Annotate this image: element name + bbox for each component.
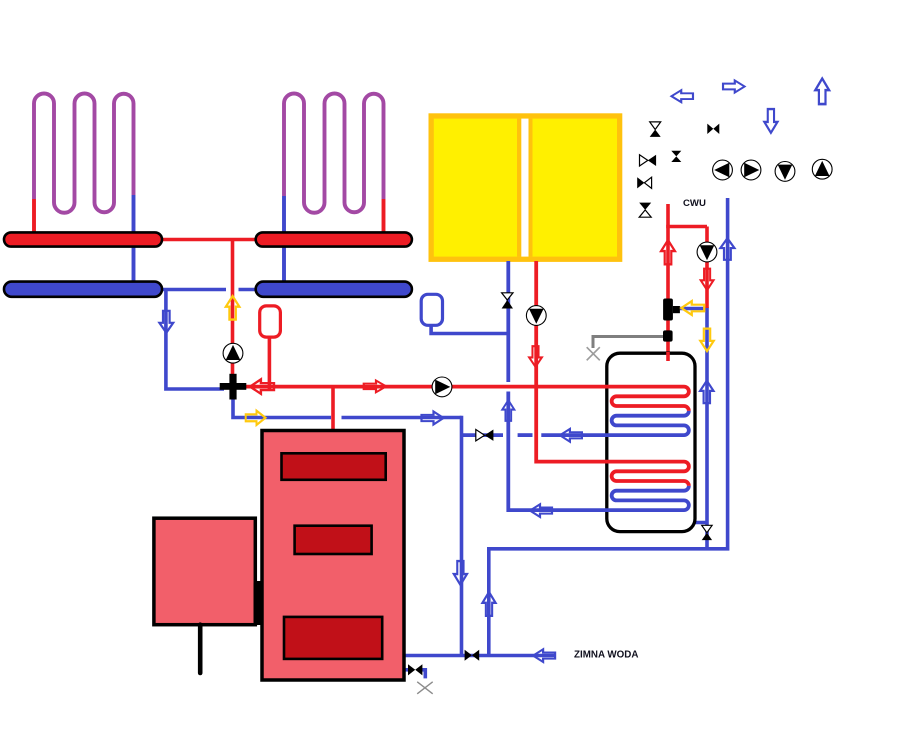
manifold blue left: [4, 282, 162, 297]
legend pump left: [713, 160, 733, 180]
tank top coil red part (boiler circuit supply): [243, 387, 689, 411]
DHW tank: [607, 353, 695, 531]
arrow blue down (legend): [764, 109, 777, 133]
gray X mark at boiler drain: [417, 682, 433, 694]
manifold red left: [4, 232, 162, 246]
heating coil 1 red leg: [32, 199, 36, 240]
valve legend hourglass black/white: [639, 203, 651, 218]
pump P2 boiler circuit (right): [432, 377, 452, 397]
arrow yellow left at tee: [681, 301, 704, 315]
pump P3 solar circuit (down): [526, 306, 546, 326]
wire: blue stub from tee to solar return: [680, 307, 707, 311]
arrow red down on solar supply: [529, 346, 542, 367]
black square fitting on CWU pipe: [663, 330, 673, 341]
arrow red down at x707: [701, 269, 714, 290]
wire: red CWU pipe into tank: [666, 204, 670, 361]
wire: blue tank bottom stub: [686, 521, 707, 525]
arrow blue left on tank bottom coil return: [530, 504, 552, 517]
tank bottom coil blue part (solar return): [508, 392, 689, 511]
hopper-boiler connector: [254, 581, 264, 625]
legend pump down: [775, 162, 795, 182]
wire: blue cold water horizontal ZIMNA WODA: [404, 654, 556, 658]
boiler window top: [282, 453, 386, 480]
arrow blue up at x707 tank: [700, 381, 713, 403]
arrow blue right (legend): [723, 80, 745, 92]
valve legend bowtie black: [707, 124, 719, 134]
solar panel: [429, 113, 623, 262]
wire: red drop from manifold link to pump and cross: [231, 240, 235, 379]
pump P4 CWU circulation (down): [697, 242, 717, 262]
arrow yellow right on boiler return: [246, 411, 266, 425]
svg-text:CWU: CWU: [683, 198, 706, 209]
heating coil 1 (purple serpentine): [34, 94, 134, 213]
wire: red vessel stem: [268, 335, 272, 389]
wire: blue expansion vessel stem: [431, 322, 508, 334]
valve legend small hourglass black: [671, 151, 681, 162]
wire: blue cross-to-riser after gap: [342, 416, 462, 420]
tank bottom coil red part (solar supply): [536, 261, 689, 486]
arrow red right on main: [364, 381, 386, 393]
arrow blue up on cold feed riser: [482, 592, 495, 616]
wire: blue boiler drain hook: [422, 670, 426, 679]
valve hourglass below solar panel: [502, 293, 513, 309]
arrow blue left on ZIMNA WODA line: [533, 649, 555, 662]
valve legend bowtie black/white: [637, 177, 651, 188]
black tee fitting on CWU pipe: [663, 299, 680, 321]
wire: red solar CWU drop at x=707: [705, 227, 709, 309]
manifold blue right: [256, 282, 412, 297]
wire: red CWU horizontal: [666, 225, 707, 229]
wire: solar return riser upper part: [506, 261, 510, 382]
valve hourglass below tank stub: [702, 525, 712, 540]
valve bowtie on boiler drain: [408, 664, 422, 675]
boiler body: [262, 431, 404, 681]
wire: blue riser down to cold water line: [460, 416, 464, 656]
arrow blue up at x727: [720, 238, 734, 260]
boiler window middle: [295, 526, 372, 554]
boiler window bottom: [284, 617, 382, 659]
heating coil 1 blue leg: [132, 195, 136, 290]
pump P1 radiator circuit (up): [223, 343, 243, 363]
wire: gray sensor line: [593, 337, 663, 349]
heating coil 2 blue leg: [282, 196, 286, 290]
wire: blue from cross down then right to riser: [233, 395, 331, 418]
wire: blue link between blue manifolds (left part): [160, 288, 226, 292]
arrow blue down on radiator return: [159, 311, 173, 333]
arrow blue left (legend): [671, 90, 693, 102]
mixing cross fitting: [220, 374, 247, 400]
valve bowtie on ZIMNA WODA line: [465, 650, 480, 661]
wire: blue link between blue manifolds (right part): [239, 288, 259, 292]
expansion vessel blue: [421, 294, 442, 325]
arrow red left on main toward cross: [250, 379, 274, 393]
arrow blue down on riser to cold line: [454, 561, 467, 585]
expansion vessel red: [260, 306, 281, 337]
arrow blue left on tank top coil return: [560, 429, 582, 442]
arrow blue up (legend): [815, 79, 829, 105]
wire: blue solar return/cold line at x=707: [705, 307, 709, 549]
red CWU stub inside tank: [666, 352, 670, 361]
tank top coil blue part (boiler circuit return): [541, 411, 689, 435]
heating coil 2 (purple serpentine): [284, 94, 384, 213]
hopper leg: [198, 625, 203, 673]
wire: top coil return segment to riser: [462, 433, 504, 437]
valve legend bowtie white/black: [640, 155, 657, 166]
wire: blue boiler drain stub: [403, 668, 409, 672]
arrow blue right on boiler return: [422, 412, 444, 425]
wire: blue drop from blue manifold to mixing cross: [166, 288, 224, 389]
valve legend hourglass white/black: [650, 122, 661, 137]
wire: red boiler supply drop: [331, 387, 335, 431]
boiler hopper: [154, 518, 255, 625]
valve bowtie on top coil return: [476, 430, 494, 441]
heating coil 2 red leg: [382, 199, 386, 240]
wire: blue cold water main right loop: [489, 198, 728, 656]
arrow yellow up on radiator supply: [226, 296, 240, 320]
svg-text:ZIMNA WODA: ZIMNA WODA: [574, 650, 638, 661]
manifold red right: [256, 232, 412, 246]
wire: red link between red manifolds: [160, 238, 258, 242]
arrow blue up on solar return riser: [502, 400, 514, 421]
arrow red up on CWU pipe: [661, 240, 675, 264]
legend pump right: [741, 160, 761, 180]
wire: top coil return segment middle: [518, 433, 533, 437]
gray X mark near tank: [587, 347, 600, 360]
legend pump up: [812, 159, 832, 179]
arrow yellow down on solar return: [700, 329, 713, 351]
